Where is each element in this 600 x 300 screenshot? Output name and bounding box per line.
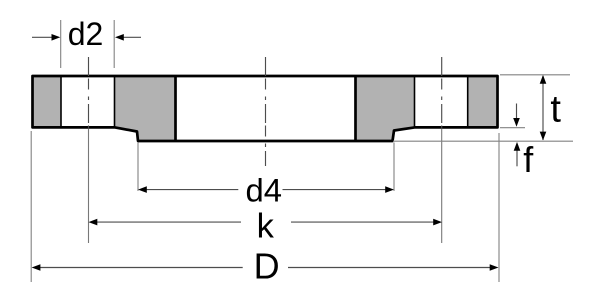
extension line d2 left xyxy=(60,20,62,68)
bolt hole left edge (left hole) xyxy=(60,76,62,127)
extension line d4 right xyxy=(393,143,395,192)
extension line D right xyxy=(498,133,500,282)
extension line d2 right xyxy=(113,20,115,68)
centerline bolt left xyxy=(88,57,90,129)
dimension f upper arrow xyxy=(516,104,518,119)
dimension f lower arrow xyxy=(516,151,518,167)
extension line raised face bottom xyxy=(393,140,573,142)
flange section gray: left rim xyxy=(33,76,61,127)
dimension d4 left xyxy=(146,189,238,191)
extension line k right (bolt axis) xyxy=(441,129,443,243)
dimension d2 right arrow xyxy=(123,36,141,38)
dimension t xyxy=(542,76,544,140)
svg-text:k: k xyxy=(257,208,275,246)
svg-text:D: D xyxy=(254,246,280,287)
flange outline xyxy=(33,76,498,141)
bolt hole right edge (right hole) xyxy=(467,76,469,127)
extension line f upper xyxy=(500,127,525,129)
bolt hole right edge (left hole) xyxy=(114,76,116,127)
dimension k left xyxy=(97,221,241,223)
dimension d2 left arrow xyxy=(32,36,52,38)
extension line t top xyxy=(500,74,570,76)
flange section gray: right web between bore and bolt hole xyxy=(356,76,415,141)
dimension d4 right xyxy=(283,189,386,191)
centerline bolt right xyxy=(441,57,443,129)
extension line d4 left xyxy=(137,143,139,192)
extension line k left (bolt axis) xyxy=(88,129,90,243)
bolt hole left edge (right hole) xyxy=(414,76,416,127)
flange section gray: right rim xyxy=(468,76,498,127)
centerline axis xyxy=(265,57,267,166)
bore right edge xyxy=(354,76,357,141)
svg-text:t: t xyxy=(550,89,561,131)
svg-text:d4: d4 xyxy=(246,172,282,209)
svg-text:f: f xyxy=(523,139,534,180)
bore left edge xyxy=(174,76,177,141)
extension line D left xyxy=(30,131,32,282)
dimension D right xyxy=(288,267,490,269)
dimension D left xyxy=(40,267,243,269)
flange section gray: left web between bolt hole and bore xyxy=(115,76,176,141)
dimension k right xyxy=(291,221,434,223)
svg-text:d2: d2 xyxy=(68,16,104,52)
